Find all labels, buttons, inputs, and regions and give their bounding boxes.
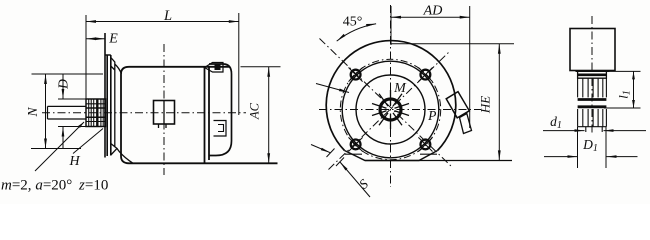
flange bolt holes with 45deg cross marks (351, 70, 361, 80)
dimension L line (86, 21, 239, 23)
svg-text:m=2, a=20° z=10: m=2, a=20° z=10 (1, 178, 108, 194)
wire - shaft centerline (side view) (42, 112, 246, 114)
lifting lug (side view) (205, 63, 224, 73)
front view diagonal centerline SW-NE (329, 52, 450, 170)
dimension HE extension line (390, 43, 514, 45)
shaft stub (side view) (48, 106, 87, 119)
dimension l1 extension lines (607, 70, 641, 72)
dimension AC line (268, 67, 270, 164)
node - vertical centerline of motor body (side view) (163, 44, 165, 175)
shaft detail centerline (591, 16, 593, 135)
svg-text:AD: AD (423, 4, 443, 19)
leader to gear note (35, 122, 84, 171)
dimension N extension lines (32, 73, 104, 75)
front bell housing (side view) (111, 58, 133, 164)
dimension L extension lines (85, 15, 87, 99)
gear ring (front view) (380, 99, 401, 120)
motor rear end cap (side view) (209, 64, 232, 156)
mounting flange plate (side view) (105, 33, 111, 158)
dimension N line (45, 74, 47, 149)
svg-text:AC: AC (248, 102, 262, 120)
svg-text:D: D (56, 79, 71, 90)
dimension AD extension line (469, 6, 471, 128)
dimension S tick lines (327, 149, 335, 158)
svg-text:N: N (25, 107, 40, 118)
leader for H (73, 129, 103, 154)
front view vertical centerline (390, 5, 392, 187)
45 degree leader arrow (316, 84, 349, 93)
dimension D1 line (544, 156, 578, 158)
flange outer circle P (326, 41, 456, 151)
svg-text:P: P (427, 108, 436, 123)
bolt pitch circle M (dash-dot) (340, 59, 440, 159)
svg-text:M: M (393, 81, 407, 96)
flange spigot circle N (356, 75, 425, 144)
dimension d1 line (543, 130, 585, 132)
terminal box (front view) (446, 92, 469, 118)
terminal box (side view, centered) (154, 101, 175, 125)
svg-text:S: S (356, 176, 371, 192)
dimension D extension lines (58, 98, 86, 100)
gear teeth spokes (front view) (390, 90, 392, 105)
front view horizontal centerline (319, 109, 481, 111)
dimension AC extension line (241, 66, 281, 68)
motor hub block (detail view) (570, 29, 615, 71)
svg-text:HE: HE (478, 96, 493, 114)
dimension E line (86, 38, 105, 40)
dimension l1 line (633, 71, 635, 108)
motor body (side view) (121, 67, 278, 164)
ground baseline (365, 160, 512, 162)
svg-text:L: L (163, 8, 172, 24)
gear teeth hatching (side view) (88, 99, 90, 127)
45 degree dimension arc (337, 24, 376, 41)
svg-text:d1: d1 (550, 114, 562, 131)
motor body circle (342, 61, 439, 158)
dimension AD line (391, 16, 470, 18)
dimension D1 extension lines (577, 127, 579, 168)
svg-text:l1: l1 (616, 90, 633, 99)
svg-text:45°: 45° (343, 15, 363, 30)
dimension D line (62, 74, 64, 99)
svg-text:H: H (68, 154, 80, 169)
gear pinion Z1 (side view) (86, 99, 106, 127)
svg-text:E: E (108, 32, 118, 47)
shaft stub below gear (detail view) (585, 127, 587, 132)
rear side nub (side view) (214, 121, 227, 137)
svg-text:D1: D1 (582, 137, 598, 154)
dimension HE line (498, 44, 500, 161)
front view diagonal centerline NW-SE (320, 39, 453, 168)
dimension S line (311, 145, 331, 153)
gear pinion (detail view) (578, 71, 607, 78)
mounting feet (front view) (345, 151, 438, 161)
